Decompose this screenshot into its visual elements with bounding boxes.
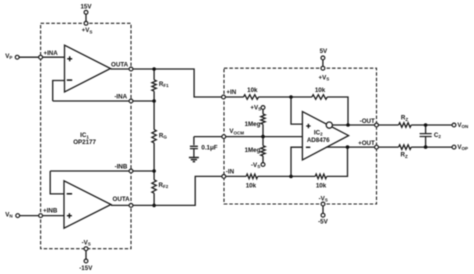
resistor RZ top bbox=[399, 123, 412, 128]
junction C2 bottom bbox=[424, 145, 428, 149]
resistor 10k feedback bottom bbox=[315, 174, 327, 179]
wire 15V supply to +Vs pin bbox=[85, 14, 87, 21]
wire feedback top to -OUT bbox=[327, 97, 348, 125]
svg-text:-INB: -INB bbox=[115, 163, 128, 170]
junction C2 top bbox=[424, 123, 428, 127]
wire node A segment bbox=[259, 96, 312, 98]
resistor RF1 bbox=[152, 80, 156, 91]
pin +Vs terminal on box edge bbox=[84, 21, 88, 25]
resistor 10k feedback top bbox=[312, 95, 327, 100]
pin -IN terminal on box edge bbox=[222, 175, 226, 179]
op-amp B plus sign bbox=[67, 213, 72, 218]
junction VOCM divider bbox=[261, 135, 265, 139]
wire op-amp A feedback (-INA) bbox=[53, 81, 154, 102]
wire cap to ground bbox=[193, 149, 195, 158]
resistor 10k input bottom bbox=[246, 174, 258, 179]
svg-text:15V: 15V bbox=[80, 3, 92, 10]
junction -INB/RF2 bbox=[152, 169, 156, 173]
wire 1Meg lower to -Vs terminal bbox=[262, 156, 264, 163]
pin +OUT terminal on box edge bbox=[375, 145, 379, 149]
wire summing node to amp +input bbox=[291, 97, 302, 124]
junction RF2/OUTB bbox=[152, 204, 156, 208]
wire -INA node to RG bbox=[153, 101, 155, 130]
wire -Vs pin to -5V supply bbox=[322, 206, 324, 214]
wire 1Meg upper to VOCM node bbox=[262, 124, 264, 136]
pin +INA terminal on box edge bbox=[39, 55, 43, 59]
capacitor C1 0.1uF plates bbox=[190, 146, 198, 148]
resistor 1Meg upper bbox=[261, 114, 265, 124]
svg-text:1Meg: 1Meg bbox=[245, 147, 261, 154]
svg-text:+IN: +IN bbox=[226, 89, 236, 96]
wire cap branch bbox=[193, 137, 195, 146]
wire feedback bottom to +OUT bbox=[327, 147, 348, 176]
terminal 15V bbox=[84, 10, 88, 14]
wire +OUT line bbox=[326, 146, 452, 148]
wire OUTB to AD8476 -IN bbox=[111, 176, 222, 205]
pin OUTB terminal on box edge bbox=[129, 204, 133, 208]
IC2 AD8476 dashed boundary box bbox=[224, 68, 377, 204]
svg-text:5V: 5V bbox=[320, 48, 328, 55]
svg-text:10k: 10k bbox=[315, 87, 326, 94]
IC1 OP2177 dashed boundary box bbox=[41, 23, 131, 248]
wire -INB node to RF2 bbox=[153, 171, 155, 180]
svg-text:-INA: -INA bbox=[114, 94, 127, 101]
op-amp B minus sign bbox=[67, 193, 72, 195]
wire -Vs pin to -15V supply bbox=[85, 251, 87, 260]
pin AD8476 +Vs terminal on box edge bbox=[321, 66, 325, 70]
svg-text:AD8476: AD8476 bbox=[307, 137, 330, 144]
op-amp U1A (OP2177 A) bbox=[65, 45, 111, 92]
svg-text:OUTA: OUTA bbox=[113, 196, 131, 203]
terminal -5V bbox=[321, 213, 325, 217]
terminal Vn bbox=[16, 214, 20, 218]
junction -OUT feedback bbox=[346, 123, 350, 127]
junction RF1/-INA bbox=[152, 99, 156, 103]
pin -INA terminal on box edge bbox=[129, 99, 133, 103]
terminal Vp bbox=[15, 55, 19, 59]
wire C2 bottom lead bbox=[425, 137, 427, 148]
wire C2 top lead bbox=[425, 125, 427, 133]
svg-text:OUTA: OUTA bbox=[111, 61, 129, 68]
wire VOCM node to 1Meg lower bbox=[262, 137, 264, 146]
op-amp U2 plus sign bbox=[306, 124, 310, 128]
wire node B segment bbox=[258, 175, 316, 177]
op-amp U1B (OP2177 B) bbox=[64, 181, 111, 228]
resistor 1Meg lower bbox=[261, 146, 265, 156]
pin VOCM terminal on box edge bbox=[222, 135, 226, 139]
resistor RZ bottom bbox=[399, 145, 412, 150]
terminal AD8476 internal +Vs bbox=[261, 106, 265, 110]
wire -OUT line bbox=[332, 124, 452, 126]
svg-text:OP2177: OP2177 bbox=[73, 139, 96, 146]
svg-text:10k: 10k bbox=[316, 183, 327, 190]
junction summing node bottom bbox=[289, 175, 293, 179]
wire +Vs terminal to 1Meg bbox=[262, 109, 264, 114]
svg-text:-5V: -5V bbox=[318, 218, 329, 225]
wire OUTA node to RF1 bbox=[153, 69, 155, 80]
pin -OUT terminal on box edge bbox=[375, 123, 379, 127]
terminal Von bbox=[452, 123, 456, 127]
terminal Vop bbox=[452, 145, 456, 149]
op-amp U2 minus sign bbox=[306, 146, 310, 148]
wire Vp input to op-amp A +input bbox=[19, 56, 64, 58]
svg-text:1Meg: 1Meg bbox=[245, 121, 261, 128]
junction +OUT feedback bbox=[346, 145, 350, 149]
svg-text:+INA: +INA bbox=[43, 50, 58, 57]
wire Vn input to op-amp B +input bbox=[20, 215, 64, 217]
op-amp U2 (AD8476 internal) bbox=[302, 112, 348, 160]
capacitor C2 plates bbox=[420, 134, 432, 137]
wire +IN to R1 bbox=[225, 96, 243, 98]
pin +IN terminal on box edge bbox=[222, 95, 226, 99]
wire op-amp B feedback (-INB) bbox=[50, 171, 154, 194]
svg-text:+INB: +INB bbox=[43, 208, 58, 215]
svg-text:+OUT: +OUT bbox=[358, 140, 375, 147]
op-amp U2 inverting output bubble bbox=[326, 122, 332, 128]
pin OUTA terminal on box edge bbox=[129, 67, 133, 71]
wire OUTA to AD8476 +IN bbox=[111, 69, 222, 97]
junction OUTA/RF1 bbox=[152, 67, 156, 71]
op-amp A plus sign bbox=[67, 56, 72, 61]
op-amp A minus sign bbox=[67, 79, 72, 81]
ground symbol bbox=[189, 158, 199, 162]
wire summing node to amp -input bbox=[291, 147, 302, 176]
svg-text:-15V: -15V bbox=[79, 265, 93, 272]
wire RG to -INB node bbox=[153, 143, 155, 171]
wire 5V supply to +Vs pin bbox=[322, 60, 324, 67]
wire VOCM line bbox=[194, 136, 303, 138]
wire -IN to R3 bbox=[226, 175, 247, 177]
pin -Vs terminal on box edge bbox=[84, 247, 88, 251]
resistor RF2 bbox=[152, 180, 156, 193]
terminal AD8476 internal -Vs bbox=[261, 163, 265, 167]
svg-text:10k: 10k bbox=[247, 87, 258, 94]
pin +INB terminal on box edge bbox=[39, 214, 43, 218]
terminal -15V bbox=[84, 259, 88, 263]
junction summing node top bbox=[289, 95, 293, 99]
svg-text:0.1μF: 0.1μF bbox=[201, 145, 217, 152]
svg-text:10k: 10k bbox=[246, 183, 257, 190]
resistor RG bbox=[152, 130, 156, 143]
pin AD8476 -Vs terminal on box edge bbox=[321, 202, 325, 206]
svg-text:-OUT: -OUT bbox=[360, 118, 375, 125]
terminal 5V bbox=[321, 56, 325, 60]
wire RF2 to OUTB node bbox=[153, 193, 155, 205]
wire RF1 to -INA node bbox=[153, 91, 155, 101]
svg-text:-IN: -IN bbox=[226, 169, 235, 176]
pin -INB terminal on box edge bbox=[129, 169, 133, 173]
resistor 10k input top bbox=[244, 95, 259, 100]
